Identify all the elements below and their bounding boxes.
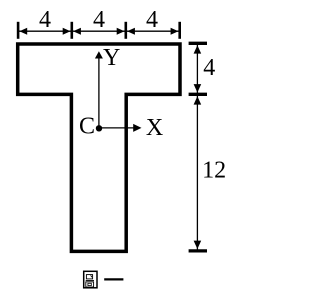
- Y axis arrowhead: [95, 51, 103, 58]
- centroid dot C: [96, 125, 102, 131]
- caption glyph tu inner bottom box: [86, 282, 94, 287]
- svg-text:4: 4: [93, 7, 105, 33]
- top dimension tick 4: [178, 22, 181, 39]
- top dimension line: [18, 30, 180, 32]
- arrowhead left seg1: [19, 28, 27, 35]
- arrowhead down above bottom tick: [194, 241, 202, 249]
- X axis arrowhead: [133, 124, 141, 132]
- svg-text:12: 12: [202, 158, 226, 184]
- svg-text:4: 4: [39, 7, 51, 33]
- top dimension tick 1: [17, 22, 20, 39]
- svg-text:4: 4: [203, 55, 215, 81]
- right dimension tick bottom: [189, 249, 207, 252]
- right dimension tick top: [189, 42, 207, 45]
- arrowhead left seg3: [127, 28, 135, 35]
- svg-text:X: X: [146, 115, 163, 141]
- arrowhead right seg3: [171, 28, 179, 35]
- caption glyph tu innermost box: [88, 283, 91, 285]
- svg-text:4: 4: [146, 7, 158, 33]
- svg-text:Y: Y: [103, 45, 120, 71]
- top dimension tick 3: [125, 22, 128, 39]
- Y axis line: [98, 58, 100, 129]
- caption glyph tu inner top mouth: [86, 275, 92, 279]
- T-section outline: [18, 44, 180, 251]
- caption glyph tu middle stroke: [86, 280, 94, 282]
- arrowhead down above middle tick: [194, 84, 202, 92]
- caption glyph yi (one) stroke: [104, 278, 123, 280]
- svg-text:C: C: [79, 114, 95, 140]
- top dimension tick 2: [71, 22, 74, 39]
- X axis line: [99, 127, 134, 129]
- arrowhead up under top tick: [194, 45, 202, 53]
- arrowhead right seg2: [117, 28, 125, 35]
- caption glyph tu (figure) outer box: [84, 271, 97, 288]
- arrowhead right seg1: [63, 28, 71, 35]
- caption glyph tu inner top tick: [91, 275, 92, 277]
- arrowhead up under middle tick: [194, 96, 202, 104]
- arrowhead left seg2: [73, 28, 81, 35]
- right dimension line: [196, 45, 198, 250]
- right dimension tick middle: [189, 93, 207, 96]
